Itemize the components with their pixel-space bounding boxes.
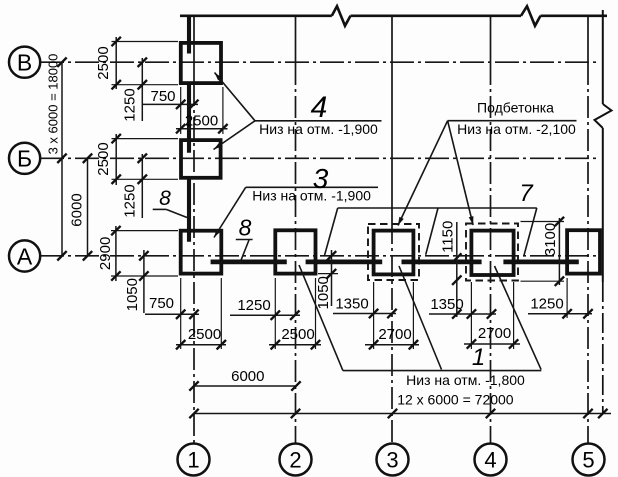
svg-text:1: 1 [472, 344, 485, 371]
svg-text:1050: 1050 [124, 278, 141, 311]
svg-text:Низ на отм. -1,900: Низ на отм. -1,900 [259, 121, 378, 137]
svg-text:Низ на отм. -1,900: Низ на отм. -1,900 [252, 188, 371, 204]
svg-text:3 x 6000 = 18000: 3 x 6000 = 18000 [46, 54, 61, 155]
svg-text:1: 1 [187, 448, 199, 473]
svg-text:1250: 1250 [237, 297, 270, 314]
svg-text:В: В [17, 50, 32, 76]
svg-text:5: 5 [582, 448, 594, 473]
svg-text:8: 8 [159, 187, 171, 210]
svg-text:Низ на отм. -1,800: Низ на отм. -1,800 [406, 372, 525, 388]
svg-text:4: 4 [311, 91, 328, 124]
svg-text:1250: 1250 [530, 296, 563, 313]
svg-text:2500: 2500 [185, 113, 218, 130]
svg-text:2500: 2500 [95, 142, 112, 175]
svg-text:2500: 2500 [281, 326, 314, 343]
svg-text:750: 750 [149, 295, 174, 312]
svg-text:6000: 6000 [69, 193, 86, 226]
svg-text:Подбетонка: Подбетонка [477, 100, 554, 116]
svg-text:2700: 2700 [478, 325, 511, 342]
svg-text:2: 2 [289, 448, 301, 473]
svg-text:2700: 2700 [378, 326, 411, 343]
svg-text:2500: 2500 [95, 46, 112, 79]
svg-text:750: 750 [150, 88, 175, 105]
svg-text:8: 8 [239, 215, 252, 241]
svg-text:12 x 6000 = 72000: 12 x 6000 = 72000 [397, 392, 514, 408]
svg-text:Б: Б [17, 146, 32, 172]
svg-text:2500: 2500 [188, 326, 221, 343]
svg-text:3100: 3100 [542, 223, 559, 256]
svg-text:А: А [17, 244, 33, 270]
svg-text:1050: 1050 [315, 276, 332, 309]
svg-text:3: 3 [386, 448, 398, 473]
svg-text:Низ на отм. -2,100: Низ на отм. -2,100 [457, 121, 576, 137]
svg-text:1250: 1250 [121, 88, 138, 121]
svg-text:6000: 6000 [231, 368, 264, 385]
svg-text:2900: 2900 [97, 237, 114, 270]
svg-text:1350: 1350 [335, 296, 368, 313]
svg-text:1350: 1350 [430, 296, 463, 313]
svg-text:4: 4 [484, 448, 496, 473]
svg-text:7: 7 [519, 180, 534, 207]
svg-text:1150: 1150 [439, 221, 456, 253]
svg-text:1250: 1250 [121, 184, 138, 217]
